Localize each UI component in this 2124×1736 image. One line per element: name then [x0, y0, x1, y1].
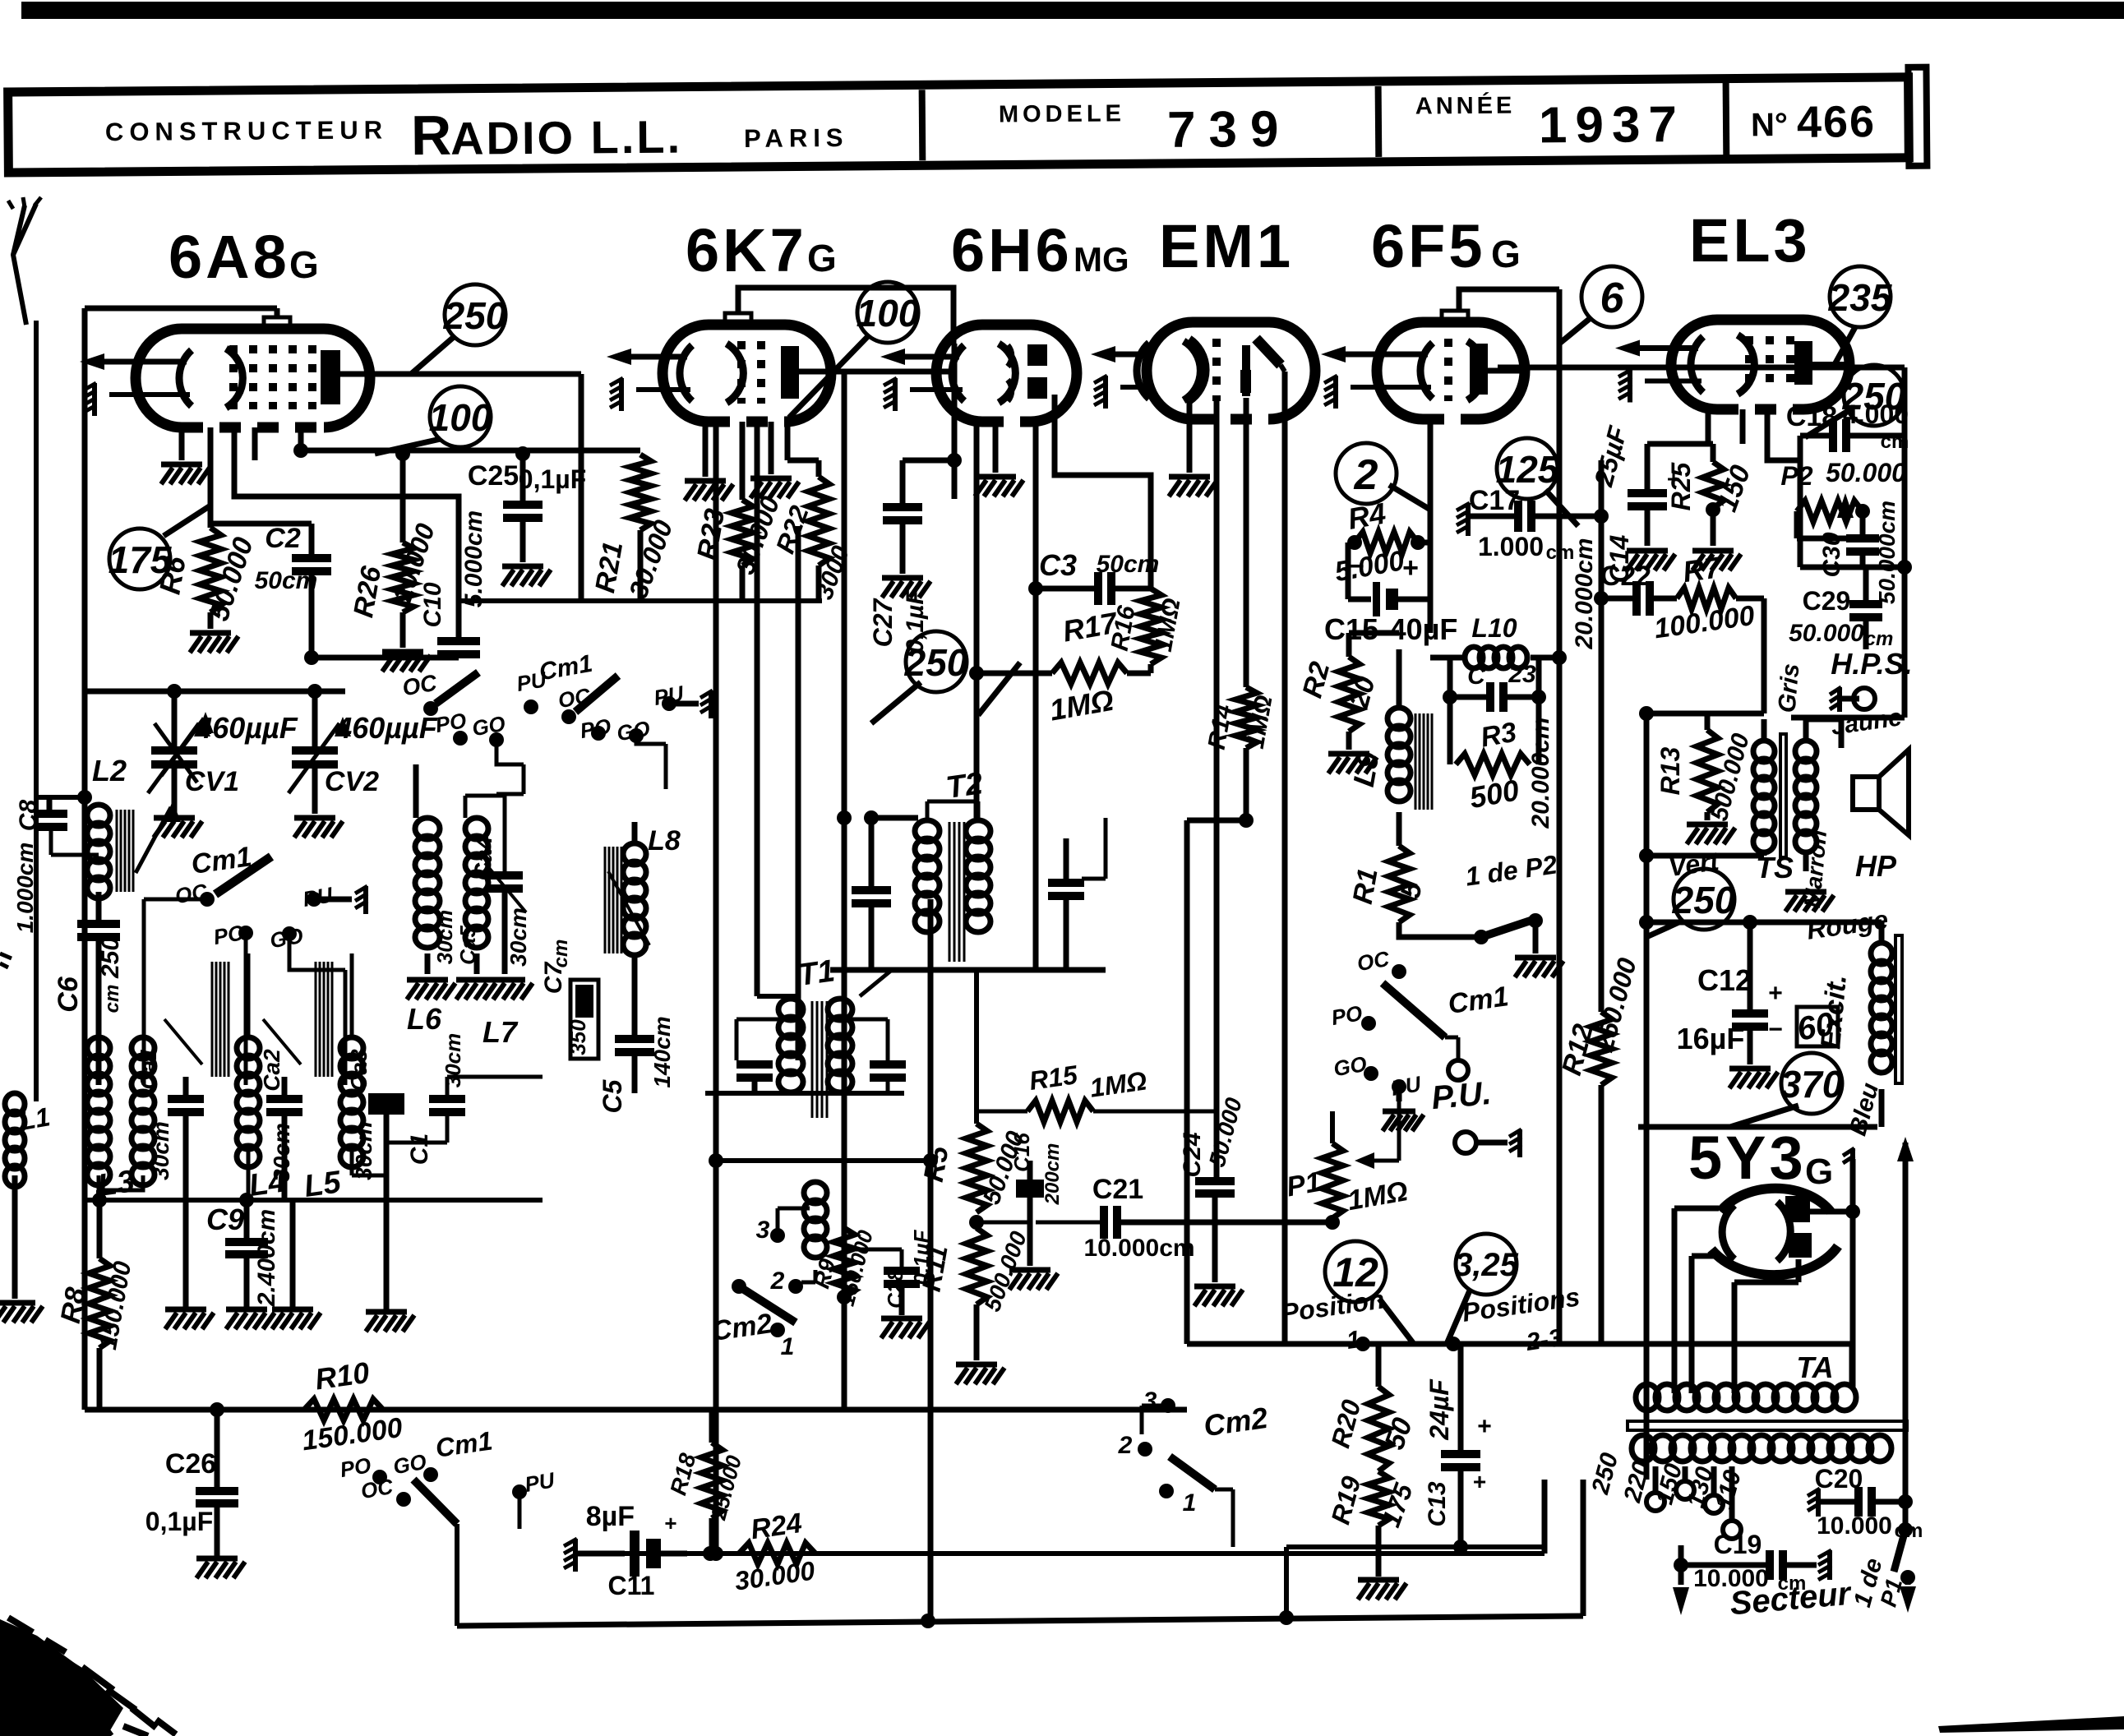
svg-text:CV2: CV2 [325, 766, 379, 797]
svg-text:140cm: 140cm [649, 1016, 675, 1087]
svg-text:C14: C14 [1605, 534, 1634, 583]
svg-text:C16: C16 [1009, 1133, 1034, 1172]
svg-text:C9: C9 [206, 1203, 244, 1236]
svg-text:3,25: 3,25 [1454, 1247, 1519, 1283]
svg-text:L2: L2 [92, 754, 127, 787]
svg-text:460µµF: 460µµF [335, 711, 438, 745]
svg-text:Ca5: Ca5 [455, 926, 480, 965]
svg-text:TA: TA [1796, 1350, 1833, 1384]
svg-text:50cm: 50cm [255, 567, 318, 594]
svg-text:6: 6 [1600, 275, 1625, 322]
svg-text:6K7: 6K7 [686, 216, 807, 284]
svg-text:30cm: 30cm [148, 1121, 173, 1180]
svg-text:50.000cm: 50.000cm [1874, 501, 1900, 604]
svg-text:Excit.: Excit. [1815, 973, 1853, 1050]
svg-text:350: 350 [566, 1019, 590, 1055]
svg-text:P2: P2 [1780, 461, 1812, 491]
svg-text:20.000cm: 20.000cm [1527, 717, 1554, 829]
svg-text:24µF: 24µF [1424, 1378, 1454, 1441]
svg-text:4.000: 4.000 [1843, 399, 1909, 429]
svg-text:C19: C19 [1714, 1530, 1762, 1559]
svg-text:250: 250 [1672, 879, 1736, 921]
svg-text:6A8: 6A8 [169, 223, 290, 291]
svg-text:G: G [289, 243, 319, 286]
svg-text:200cm: 200cm [1041, 1143, 1064, 1206]
svg-text:6H6: 6H6 [951, 216, 1073, 284]
svg-text:R6: R6 [153, 553, 193, 597]
svg-text:2.400cm: 2.400cm [253, 1209, 280, 1307]
svg-text:1: 1 [1183, 1489, 1197, 1517]
svg-text:G: G [807, 237, 837, 279]
svg-text:100: 100 [857, 292, 920, 335]
svg-text:+: + [1473, 1469, 1486, 1494]
svg-text:Ca1: Ca1 [136, 1047, 161, 1089]
svg-text:R25: R25 [1666, 461, 1696, 510]
svg-text:C27: C27 [868, 597, 898, 647]
svg-text:5.000cm: 5.000cm [460, 510, 487, 607]
svg-text:C: C [1467, 663, 1486, 690]
svg-text:C6: C6 [53, 976, 84, 1013]
svg-text:C29: C29 [1803, 586, 1851, 616]
svg-text:PU: PU [523, 1467, 557, 1497]
svg-text:−: − [1348, 551, 1364, 582]
svg-text:1.000cm: 1.000cm [12, 843, 38, 934]
svg-text:250: 250 [97, 937, 124, 979]
svg-text:L8: L8 [648, 825, 681, 856]
svg-text:R13: R13 [1655, 746, 1685, 795]
svg-text:C10: C10 [419, 582, 446, 627]
svg-text:PO: PO [1329, 1000, 1364, 1030]
svg-text:30cm: 30cm [351, 1121, 376, 1180]
svg-text:R3: R3 [1478, 717, 1518, 754]
svg-text:N°: N° [1751, 107, 1788, 143]
svg-text:C18: C18 [1786, 401, 1837, 432]
svg-text:C26: C26 [165, 1448, 216, 1480]
svg-text:Ca2: Ca2 [259, 1049, 284, 1092]
svg-text:ADIO L.L.: ADIO L.L. [450, 111, 683, 164]
svg-text:1.000: 1.000 [1478, 532, 1544, 561]
svg-text:G: G [1805, 1152, 1833, 1192]
svg-text:30cm: 30cm [441, 1033, 465, 1088]
svg-text:5Y3: 5Y3 [1688, 1124, 1807, 1192]
svg-text:+: + [1402, 552, 1419, 584]
svg-text:10.000: 10.000 [1817, 1512, 1892, 1540]
svg-text:cm: cm [550, 940, 572, 968]
svg-text:30cm: 30cm [432, 910, 457, 965]
svg-text:30cm: 30cm [269, 1123, 294, 1182]
svg-text:PARIS: PARIS [744, 123, 849, 153]
svg-text:C1: C1 [406, 1133, 433, 1165]
svg-text:235: 235 [1828, 276, 1893, 319]
svg-text:0,1µF: 0,1µF [145, 1507, 213, 1536]
svg-text:R: R [411, 104, 452, 167]
svg-text:C21: C21 [1092, 1174, 1143, 1205]
svg-text:C5: C5 [598, 1078, 627, 1113]
svg-text:H.P.S.: H.P.S. [1831, 647, 1912, 681]
svg-text:Ca3: Ca3 [346, 1049, 372, 1092]
svg-text:−: − [1768, 1016, 1783, 1043]
svg-text:Gris: Gris [1773, 663, 1804, 714]
svg-text:10.000cm: 10.000cm [1083, 1235, 1194, 1262]
svg-text:C28: C28 [883, 1269, 907, 1309]
svg-text:0,1µF: 0,1µF [902, 589, 929, 653]
svg-text:CONSTRUCTEUR: CONSTRUCTEUR [105, 115, 388, 146]
svg-text:3: 3 [756, 1217, 770, 1244]
svg-text:L1: L1 [17, 1101, 53, 1136]
svg-text:C12: C12 [1697, 963, 1752, 997]
svg-text:cm: cm [101, 985, 123, 1013]
svg-text:C20: C20 [1815, 1464, 1863, 1494]
svg-text:ANNÉE: ANNÉE [1415, 91, 1516, 120]
svg-text:50.000: 50.000 [1826, 458, 1906, 487]
svg-text:30cm: 30cm [506, 907, 531, 967]
svg-text:739: 739 [1167, 101, 1292, 159]
svg-text:P1: P1 [1284, 1166, 1323, 1203]
svg-text:G: G [1491, 233, 1521, 275]
svg-text:0,1µF: 0,1µF [519, 464, 586, 494]
svg-text:C13: C13 [1424, 1481, 1451, 1526]
svg-text:R1: R1 [1347, 866, 1384, 906]
svg-text:23: 23 [1508, 661, 1536, 688]
svg-text:466: 466 [1797, 97, 1877, 147]
svg-text:C25: C25 [468, 460, 519, 492]
svg-text:6F5: 6F5 [1371, 212, 1486, 280]
svg-text:MG: MG [1074, 240, 1129, 279]
svg-text:3: 3 [1143, 1387, 1157, 1415]
svg-text:L10: L10 [1471, 613, 1517, 643]
svg-text:L7: L7 [483, 1015, 519, 1049]
svg-text:C30: C30 [1818, 532, 1845, 577]
svg-text:T1: T1 [796, 953, 837, 993]
svg-text:8µF: 8µF [586, 1501, 635, 1532]
svg-text:EL3: EL3 [1689, 206, 1811, 275]
svg-text:1937: 1937 [1539, 96, 1685, 154]
svg-text:370: 370 [1780, 1063, 1844, 1106]
svg-text:100: 100 [429, 396, 492, 439]
svg-text:P.U.: P.U. [1430, 1075, 1493, 1116]
svg-text:2-3: 2-3 [1524, 1324, 1564, 1356]
svg-text:1: 1 [781, 1333, 795, 1360]
svg-text:2: 2 [1118, 1432, 1133, 1459]
svg-text:C8: C8 [15, 800, 42, 832]
svg-text:2: 2 [770, 1267, 785, 1295]
svg-text:cm: cm [1881, 431, 1909, 453]
svg-text:C24: C24 [1179, 1132, 1206, 1177]
svg-text:+: + [1768, 980, 1783, 1007]
svg-text:C17: C17 [1469, 485, 1520, 516]
svg-text:MODELE: MODELE [999, 100, 1125, 127]
svg-text:EM1: EM1 [1159, 212, 1294, 280]
svg-text:20.000cm: 20.000cm [1571, 538, 1598, 649]
svg-text:50.000: 50.000 [1789, 620, 1864, 647]
svg-text:50cm: 50cm [1097, 551, 1160, 578]
svg-text:+: + [664, 1511, 676, 1535]
svg-text:R5: R5 [918, 1143, 955, 1184]
svg-text:16µF: 16µF [1677, 1022, 1745, 1055]
svg-text:HP: HP [1855, 849, 1897, 883]
svg-text:C11: C11 [608, 1571, 655, 1600]
svg-text:C2: C2 [265, 523, 301, 554]
svg-text:L5: L5 [302, 1165, 344, 1204]
svg-text:R4: R4 [1346, 496, 1388, 536]
svg-text:C3: C3 [1039, 548, 1077, 582]
svg-text:2: 2 [1354, 451, 1378, 499]
svg-text:+: + [1477, 1413, 1492, 1440]
svg-text:L9: L9 [1346, 750, 1386, 789]
svg-text:R8: R8 [55, 1285, 92, 1325]
svg-text:L6: L6 [407, 1002, 442, 1036]
svg-text:cm: cm [1546, 542, 1575, 564]
svg-text:CV1: CV1 [185, 766, 239, 797]
svg-text:250: 250 [443, 294, 507, 337]
svg-text:40µF: 40µF [1390, 612, 1458, 646]
